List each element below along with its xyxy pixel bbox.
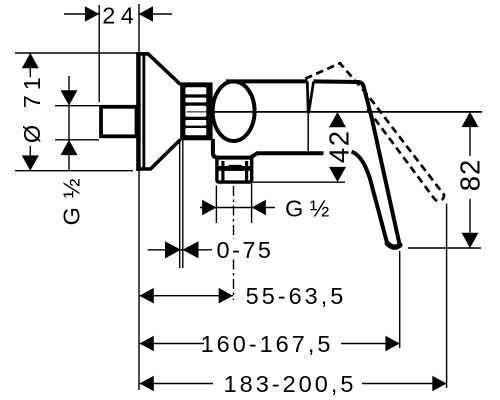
escutcheon flange inner line: [142, 53, 145, 169]
lever pivot slot: [307, 82, 313, 114]
body bottom left outline: [213, 139, 324, 158]
escutcheon front face extension double line: [179, 141, 181, 269]
handle lever outline: [313, 81, 399, 245]
shower outlet nut profile: [226, 165, 245, 171]
diameter 71 top extension line: [15, 52, 137, 54]
union nut body: [180, 82, 212, 140]
body seam line: [307, 114, 309, 152]
outlet left extension line: [215, 186, 217, 224]
dimension 55-63,5: [140, 288, 234, 304]
supply pipe nipple: [101, 107, 137, 137]
diameter 71 bottom extension line: [15, 170, 133, 172]
dimension 24 line: [64, 6, 172, 22]
dashed handle tip extension line: [446, 204, 448, 389]
shower outlet body: [217, 158, 252, 182]
wall plane extension line: [138, 4, 140, 390]
union nut slot 4: [185, 120, 206, 126]
svg-text:160-167,5: 160-167,5: [201, 331, 334, 357]
svg-text:24: 24: [102, 3, 139, 29]
svg-text:0-75: 0-75: [216, 237, 273, 263]
dimension 82 bottom extension line: [408, 247, 481, 249]
handle lever tip cap: [387, 243, 400, 247]
outlet centerline dashed: [233, 186, 235, 239]
dashed handle raised position upper edge: [305, 63, 444, 201]
dimension G half right: [200, 200, 275, 216]
pipe-end extension line for dim 24: [98, 5, 100, 102]
svg-text:G ½: G ½: [59, 177, 85, 225]
escutcheon cone top edge: [137, 54, 181, 85]
union nut slot 5: [185, 128, 206, 135]
escutcheon flange back plate: [136, 52, 141, 171]
svg-text:183-200,5: 183-200,5: [224, 371, 357, 397]
dimension diameter 71 line: [22, 53, 39, 171]
union nut slot 3: [185, 106, 206, 117]
union nut slot 2: [185, 98, 206, 103]
escutcheon cone bottom edge: [137, 140, 181, 170]
svg-text:55-63,5: 55-63,5: [246, 283, 347, 309]
union nut slot 1: [185, 87, 206, 94]
G half left bottom extension line: [55, 139, 99, 141]
valve body ellipse: [213, 81, 255, 141]
handle tip extension line: [399, 251, 401, 348]
svg-text:42: 42: [324, 130, 355, 164]
G half left top extension line: [55, 105, 99, 107]
dimension 160-167,5: [140, 336, 400, 352]
body top edge: [226, 79, 308, 83]
svg-text:G ½: G ½: [285, 195, 329, 221]
dimension 42: [329, 112, 346, 182]
svg-text:82: 82: [454, 159, 485, 192]
shower outlet inner line right: [245, 161, 248, 181]
shower outlet seal band: [218, 166, 250, 171]
dimension 82: [462, 112, 479, 248]
main centerline: [187, 111, 209, 113]
shower outlet inner line left: [221, 161, 224, 181]
dimension 42 extension line: [252, 181, 345, 183]
dimension 183-200,5: [140, 376, 447, 392]
handle lever left edge: [352, 152, 388, 244]
dimension 0-75: [148, 241, 212, 258]
outlet right extension line: [251, 182, 253, 223]
dimension G half left line: [61, 76, 78, 171]
svg-text:Ø 71: Ø 71: [19, 72, 45, 143]
